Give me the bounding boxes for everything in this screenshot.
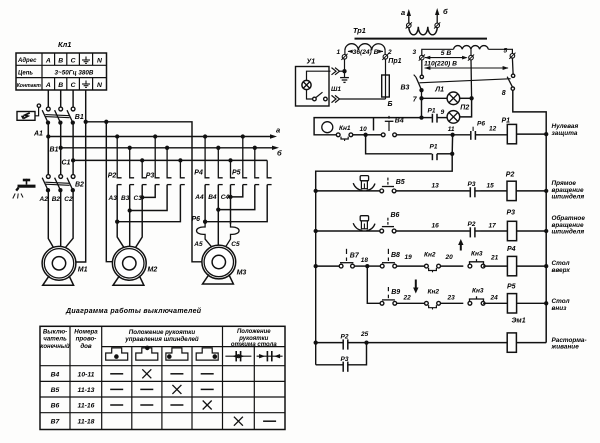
wire phase B down to В2 (60, 123, 62, 175)
wire 13 to contact Р3 (396, 190, 470, 192)
plug contact upper (332, 68, 340, 75)
release linkage to В1 (35, 107, 39, 116)
wire holding branch to left bus (316, 154, 453, 191)
svg-text:А: А (45, 82, 51, 89)
switch В2 coupling bar (45, 182, 69, 183)
svg-text:10: 10 (360, 126, 368, 133)
left bus (315, 191, 317, 365)
svg-text:11-16: 11-16 (78, 403, 95, 410)
secondary winding 36(24)В (345, 44, 385, 51)
wire node 7 down to П2 branch (421, 98, 423, 117)
svg-text:36(24) В: 36(24) В (353, 49, 379, 56)
svg-text:конечный: конечный (40, 343, 70, 350)
relay coil Р2 (507, 181, 516, 200)
svg-text:А3: А3 (108, 195, 118, 202)
svg-text:В4: В4 (395, 118, 404, 125)
wire В2 to motor М1 (60, 190, 62, 246)
svg-text:Кн1: Кн1 (339, 125, 351, 132)
relay coil Р4 (507, 256, 516, 275)
node 11 (450, 133, 454, 137)
svg-text:Р2: Р2 (108, 173, 117, 180)
wire Р1 coil to right bus (517, 133, 547, 135)
svg-text:В7: В7 (51, 419, 61, 426)
svg-text:Контакт: Контакт (17, 83, 41, 89)
signal lamp П2 (447, 111, 460, 124)
svg-text:Р3: Р3 (146, 173, 155, 180)
holding branch from node 10 (366, 135, 432, 154)
wire phase C down to В2 (72, 123, 74, 175)
crossover Р3 phase б to В3 (128, 208, 132, 212)
limit switch В6 (380, 229, 384, 233)
rung 2 wire (314, 189, 318, 193)
svg-text:110(220) В: 110(220) В (424, 61, 457, 68)
36(24)В span label with arrows (348, 50, 353, 52)
push button Кн2 rung 5 (425, 301, 429, 305)
riser from transformer mid terminal (470, 60, 473, 99)
svg-text:В: В (58, 82, 63, 89)
ground symbol in table row 3 (82, 81, 90, 88)
rung 3 wire (314, 229, 318, 233)
wire 12 to relay Р1 (480, 134, 507, 136)
junction holding branch (450, 152, 454, 156)
motor М2 (112, 246, 146, 285)
holding contact Р1 (431, 154, 433, 160)
rung 6 wire start (314, 340, 318, 344)
limit switch В4 on rung 1 (381, 133, 385, 137)
lamp Л1 (447, 92, 460, 105)
wire Р3 coil to right bus (517, 230, 547, 232)
svg-text:Р3: Р3 (341, 356, 349, 363)
wire phase C from table to breaker В1 (72, 90, 74, 107)
transformer core (355, 38, 488, 40)
break button Кн3 rung 4 (468, 264, 472, 268)
wire terminal 5 to switch 8 (511, 58, 514, 74)
secondary winding 110В 5В (454, 46, 489, 50)
svg-text:Положение рукоятки: Положение рукоятки (129, 329, 196, 336)
switch Ш1 (313, 97, 317, 101)
wire В4 down to motor М3 (217, 185, 219, 246)
svg-text:3~50Гц 380В: 3~50Гц 380В (55, 70, 94, 77)
wire switch 8 to right bus (513, 90, 546, 134)
handle icon position 2 (136, 348, 158, 360)
wire А2 to motor М1 (48, 190, 53, 247)
handle icon position 3 (166, 348, 188, 360)
plug contact lower (332, 95, 340, 102)
wire 18 to В8 (367, 265, 380, 267)
wire а feeder with arrow (48, 136, 270, 138)
junction PE to M2 (104, 120, 108, 124)
svg-text:17: 17 (489, 223, 497, 230)
wire В3 to node 7 (421, 90, 423, 98)
switch В3 (420, 75, 423, 78)
crossover Р3 phase а to С3 (140, 195, 144, 199)
thermal release box with lightning arrow (17, 112, 35, 121)
handle icon position 1 (106, 348, 128, 360)
wire В4 to node 11 (397, 134, 453, 136)
wire б feeder with arrow (61, 147, 273, 149)
wire 21 to relay Р4 (483, 265, 507, 267)
wire node 18 down to rung 5 (367, 266, 380, 303)
ground symbol at terminal 1 (340, 71, 349, 82)
svg-text:У1: У1 (307, 59, 316, 66)
svg-text:3: 3 (413, 49, 417, 56)
svg-text:А: А (45, 58, 51, 65)
stop button Кн1 mushroom head (322, 122, 333, 133)
wire PE to motor М1 frame (76, 122, 86, 262)
svg-text:С2: С2 (64, 196, 73, 203)
svg-text:Кн2: Кн2 (428, 289, 440, 296)
wire plug to node Б (340, 98, 386, 100)
svg-text:11-18: 11-18 (78, 419, 95, 426)
wire plug to terminal 1 ground node (340, 70, 345, 72)
wire 17 to relay Р3 (481, 230, 508, 232)
limit switch В9 (380, 301, 384, 305)
relay coil Р5 (507, 294, 516, 313)
spindle lever icon rung 2 (360, 176, 368, 181)
partition tick on rung 1 (373, 118, 375, 131)
down arrow symbol (415, 280, 417, 291)
wire А3 down to motor М2 (117, 185, 124, 248)
circuit breaker В1 pole contacts (46, 107, 50, 111)
svg-text:В3: В3 (121, 195, 130, 202)
svg-text:а: а (276, 126, 280, 135)
svg-text:В2: В2 (52, 196, 61, 203)
lamp in У1 (302, 80, 311, 89)
svg-text:Диаграмма работы выключателе: Диаграмма работы выключателей (65, 307, 202, 315)
svg-text:б: б (443, 7, 448, 16)
svg-text:б: б (277, 149, 282, 158)
wire node 11 down to holding branch (451, 135, 453, 154)
crossover Р5 phase с to А4 node Р6 (203, 220, 207, 224)
wire PE feeder line (84, 120, 88, 124)
svg-text:Кн2: Кн2 (424, 252, 436, 259)
svg-text:Р2: Р2 (341, 334, 349, 341)
svg-text:а: а (401, 8, 405, 17)
svg-text:11-13: 11-13 (78, 387, 95, 394)
wire 23 to Кн3 (441, 302, 464, 304)
wire Р5 coil to right bus (517, 302, 547, 304)
svg-text:А4: А4 (194, 194, 204, 201)
svg-text:Р6: Р6 (477, 121, 485, 128)
svg-text:С1: С1 (62, 160, 71, 167)
node 18 (365, 264, 369, 268)
wire feed loop to Кн1 (314, 118, 421, 135)
svg-text:М3: М3 (237, 270, 247, 277)
spindle lever icon rung 3 (360, 216, 368, 221)
coolant switch В2 pole contacts (46, 175, 50, 179)
contact Р1 on П2 branch (422, 117, 432, 119)
local lighting unit У1 box (296, 67, 330, 107)
svg-text:П2: П2 (460, 105, 469, 112)
svg-text:22: 22 (403, 294, 412, 301)
svg-text:10-11: 10-11 (78, 371, 95, 378)
crossover Р5 phase а to С4 (228, 195, 232, 199)
limit switch В5 (380, 189, 384, 193)
node 10 (363, 133, 367, 137)
svg-text:Эм1: Эм1 (512, 317, 526, 324)
svg-text:вниз: вниз (552, 305, 568, 312)
svg-text:Выклю-: Выклю- (43, 329, 67, 336)
limit switch В8 (380, 264, 384, 268)
mechanical link В3 to 8 (419, 79, 510, 83)
contact Р2 rung 6 (342, 339, 344, 349)
wire phase B from table to breaker В1 (60, 90, 62, 107)
svg-text:А1: А1 (33, 131, 43, 138)
svg-text:Ш1: Ш1 (331, 86, 341, 93)
wire 16 to contact Р2 (396, 230, 470, 232)
svg-text:В6: В6 (51, 403, 60, 410)
wire node 7 to lamp Л1 (422, 97, 448, 99)
svg-text:Цепь: Цепь (18, 71, 33, 77)
svg-text:23: 23 (447, 294, 456, 301)
motor М1 (42, 246, 76, 285)
svg-text:В1: В1 (75, 114, 84, 121)
wire С2 to motor М1 (66, 190, 73, 247)
svg-text:Р4: Р4 (507, 246, 516, 253)
svg-text:дов: дов (80, 343, 92, 350)
svg-text:В4: В4 (51, 371, 60, 378)
svg-text:9: 9 (441, 109, 445, 116)
wire PE from table down (85, 90, 87, 122)
parallel contact Р3 rung 6 (316, 364, 343, 366)
svg-text:прово-: прово- (76, 336, 97, 343)
svg-text:Р3: Р3 (507, 210, 516, 217)
svg-text:20: 20 (445, 254, 454, 261)
svg-text:Р1: Р1 (502, 118, 511, 125)
contact Р6 on rung 1 (453, 134, 471, 136)
svg-text:А2: А2 (39, 196, 49, 203)
wire 22 to Кн2 (397, 302, 425, 304)
svg-text:12: 12 (489, 126, 497, 133)
svg-text:В9: В9 (391, 289, 400, 296)
break button Кн3 rung 5 (468, 301, 472, 305)
svg-text:Кл1: Кл1 (58, 40, 71, 49)
svg-text:шпинделя: шпинделя (552, 192, 585, 200)
handle icon position 4 (196, 348, 218, 360)
stop button Кн1 contacts (336, 133, 340, 137)
svg-text:Кн3: Кн3 (472, 287, 484, 294)
node 7 (419, 96, 423, 100)
svg-text:11: 11 (448, 126, 455, 133)
crossover Р5 phase б to В4 (216, 207, 220, 211)
svg-text:Р2: Р2 (506, 171, 515, 178)
svg-text:В5: В5 (51, 387, 60, 394)
wire phase A from table to breaker В1 (47, 90, 49, 107)
wire phase A В1 to А1 junction and down to В2 (47, 123, 49, 177)
wire Р2 coil to right bus (516, 190, 546, 192)
svg-text:5: 5 (504, 48, 508, 55)
svg-text:управления шпинделей: управления шпинделей (124, 336, 199, 343)
svg-text:18: 18 (361, 257, 369, 264)
net а arrow to primary (408, 16, 410, 24)
svg-text:Р5: Р5 (232, 170, 241, 177)
circuit breaker В1 coupling bar (45, 115, 69, 116)
limit switch В7 (339, 264, 343, 268)
relay coil Р3 (507, 221, 516, 240)
net б arrow to primary (436, 15, 438, 24)
110(220)В span label with arrows (425, 67, 508, 69)
svg-text:24: 24 (490, 294, 499, 301)
svg-text:шпинделя: шпинделя (552, 227, 585, 235)
wire lamp to plug upper (307, 71, 331, 80)
svg-text:Р6: Р6 (192, 216, 201, 223)
wire С1 feeder to Р5 (73, 159, 267, 161)
wire С4 down (230, 185, 232, 224)
svg-text:Кн3: Кн3 (471, 250, 483, 257)
wire Р4 coil to right bus (517, 265, 547, 267)
5В span label with arrows (425, 57, 467, 59)
svg-text:С4: С4 (221, 194, 230, 201)
svg-text:Р4: Р4 (194, 170, 203, 177)
svg-text:В5: В5 (396, 179, 405, 186)
svg-text:Р1: Р1 (430, 144, 438, 151)
svg-text:16: 16 (432, 223, 440, 230)
svg-text:15: 15 (487, 183, 495, 190)
svg-text:Р3: Р3 (468, 181, 476, 188)
switch 8 (511, 74, 514, 77)
svg-text:1: 1 (337, 49, 341, 56)
svg-text:отжима стола: отжима стола (231, 342, 277, 348)
terminal block Кл1 table (16, 53, 107, 90)
wire Кн1 to node 10 (353, 134, 366, 136)
rung 4 wire start (314, 264, 318, 268)
svg-text:21: 21 (490, 255, 499, 262)
speed selector plug А5 С5 (crown shape) (197, 222, 214, 249)
svg-text:25: 25 (360, 331, 369, 338)
svg-text:В1: В1 (50, 147, 59, 154)
svg-text:Положение: Положение (237, 329, 271, 335)
switch diagram table grid (40, 326, 285, 429)
svg-text:В4: В4 (208, 194, 217, 201)
svg-text:Номера: Номера (74, 329, 98, 336)
svg-text:В8: В8 (391, 252, 400, 259)
motor М3 (202, 245, 236, 284)
wire 15 to relay Р2 (481, 190, 508, 192)
svg-text:С5: С5 (231, 241, 240, 248)
svg-text:Б: Б (388, 101, 393, 108)
svg-text:В2: В2 (75, 182, 84, 189)
svg-text:рукоятки: рукоятки (238, 336, 268, 342)
svg-text:В7: В7 (350, 252, 360, 259)
svg-text:5 В: 5 В (441, 50, 452, 57)
svg-text:Адрес: Адрес (17, 58, 37, 64)
node 25 (364, 340, 368, 344)
coolant faucet symbol (13, 179, 36, 199)
svg-text:В: В (58, 58, 63, 65)
wire 20 to Кн3 (441, 265, 464, 267)
svg-text:Нулевая: Нулевая (552, 123, 579, 130)
ground symbol in table row 1 (82, 57, 90, 64)
svg-text:живание: живание (551, 343, 580, 350)
svg-text:2: 2 (387, 49, 392, 56)
table clamp icon clamped (257, 355, 283, 357)
wire 10 to В4 (366, 134, 382, 136)
brake release coil Эм1 (507, 333, 516, 352)
svg-text:вверх: вверх (552, 267, 571, 274)
wire 19 to Кн2 (397, 265, 425, 267)
crossover Р3 phase с to А3 (115, 220, 119, 224)
right bus (545, 134, 547, 343)
svg-text:М1: М1 (78, 267, 88, 274)
svg-text:В3: В3 (401, 85, 410, 92)
svg-text:Л1: Л1 (434, 87, 444, 94)
wire В7 to node 18 (354, 265, 367, 267)
svg-text:Р5: Р5 (507, 283, 516, 290)
wire 24 to relay Р5 (483, 302, 507, 304)
wire А4 down (204, 185, 206, 224)
wire Л1 to mid terminal riser (460, 97, 472, 99)
relay coil Р1 (507, 124, 516, 143)
table clamp icon released (225, 355, 251, 357)
wire terminal 3 to switch В3 (421, 60, 423, 75)
svg-text:В6: В6 (391, 212, 400, 219)
svg-text:М2: М2 (148, 267, 158, 274)
svg-text:Р1: Р1 (428, 107, 436, 114)
svg-text:19: 19 (405, 254, 413, 261)
svg-text:А5: А5 (193, 241, 203, 248)
transformer primary winding (409, 27, 438, 35)
svg-text:8: 8 (502, 90, 506, 97)
wire 25 to brake coil Эм1 (367, 342, 508, 344)
wire В3 down to motor М2 (129, 185, 131, 247)
fuse Пр1 (385, 59, 387, 75)
svg-text:Р2: Р2 (468, 221, 476, 228)
wire С3 down to motor М2 (136, 185, 143, 248)
blocking contact Р2 rung 3 (469, 227, 471, 237)
wire PE drop to motor М2 (106, 122, 112, 262)
svg-text:чатель: чатель (43, 336, 67, 343)
wire Эм1 to right bus (516, 342, 546, 344)
svg-text:С: С (71, 82, 76, 89)
push button Кн2 rung 4 (425, 264, 429, 268)
svg-text:Тр1: Тр1 (353, 26, 366, 35)
svg-text:Пр1: Пр1 (388, 58, 401, 65)
svg-text:С: С (71, 58, 76, 65)
svg-text:13: 13 (432, 183, 440, 190)
svg-text:защита: защита (552, 130, 578, 137)
up arrow symbol (460, 242, 462, 251)
blocking contact Р3 rung 2 (469, 187, 471, 197)
wire lamp to switch Ш1 (307, 90, 313, 99)
